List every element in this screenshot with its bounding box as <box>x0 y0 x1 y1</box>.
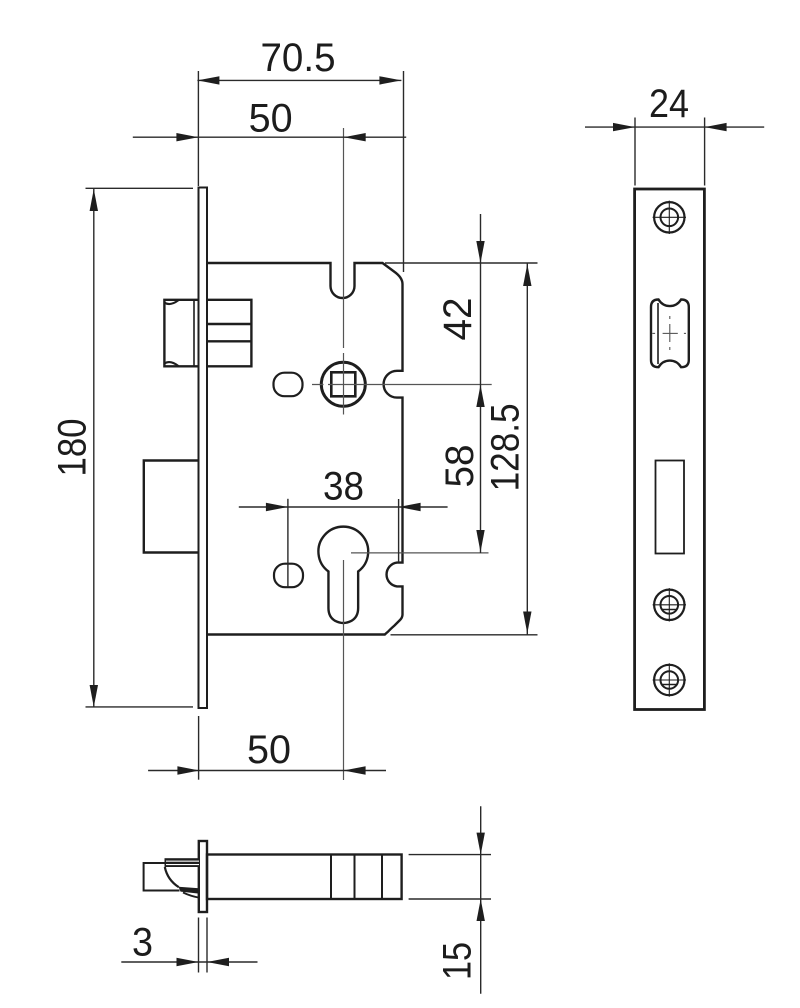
latch tail block behind faceplate <box>207 300 251 367</box>
spindle hub: square follower in circle <box>321 362 365 406</box>
svg-text:50: 50 <box>247 728 291 772</box>
svg-text:58: 58 <box>438 445 482 488</box>
faceplate edge view (left vertical plate) <box>199 188 208 709</box>
middle screw <box>653 588 686 621</box>
lock body top view <box>207 855 402 900</box>
svg-text:15: 15 <box>436 942 480 980</box>
deadbolt head (front view) <box>144 461 199 553</box>
svg-text:180: 180 <box>51 419 95 477</box>
svg-text:38: 38 <box>323 465 364 509</box>
dimension 128.5 <box>391 263 538 635</box>
latch bolt head (front view) <box>164 300 198 367</box>
svg-text:3: 3 <box>132 921 153 965</box>
dimension 3 <box>121 918 257 973</box>
fixing hole upper oval <box>274 373 303 397</box>
faceplate front view (right) <box>635 189 705 710</box>
bottom screw <box>653 663 686 696</box>
latch cutout in faceplate <box>651 300 689 368</box>
deadbolt cutout in faceplate <box>656 461 685 554</box>
dimension 24 <box>585 118 764 186</box>
svg-text:42: 42 <box>436 298 480 341</box>
euro cylinder keyhole <box>318 527 368 623</box>
svg-text:24: 24 <box>649 82 689 126</box>
dimension 42 / 58 shared line right of case <box>385 214 538 553</box>
fixing hole lower oval <box>274 564 303 588</box>
dimension 50 bottom <box>148 716 386 780</box>
dimension 15 <box>409 806 491 994</box>
latch bolt top view <box>144 858 199 897</box>
horizontal centre line through spindle <box>312 384 492 386</box>
svg-text:128.5: 128.5 <box>483 403 527 491</box>
vertical centre line through spindle and cylinder <box>343 128 345 780</box>
top screw <box>653 201 686 234</box>
faceplate bar top view <box>199 841 207 912</box>
horizontal centre line through cylinder <box>351 552 489 554</box>
dimension 50 top <box>133 136 406 138</box>
dimension 70.5 top <box>197 71 403 272</box>
lock case front view outline <box>207 263 403 635</box>
svg-text:50: 50 <box>249 97 293 141</box>
svg-text:70.5: 70.5 <box>261 36 336 80</box>
dimension 180 left <box>86 188 194 707</box>
dimension 38 <box>239 499 448 587</box>
